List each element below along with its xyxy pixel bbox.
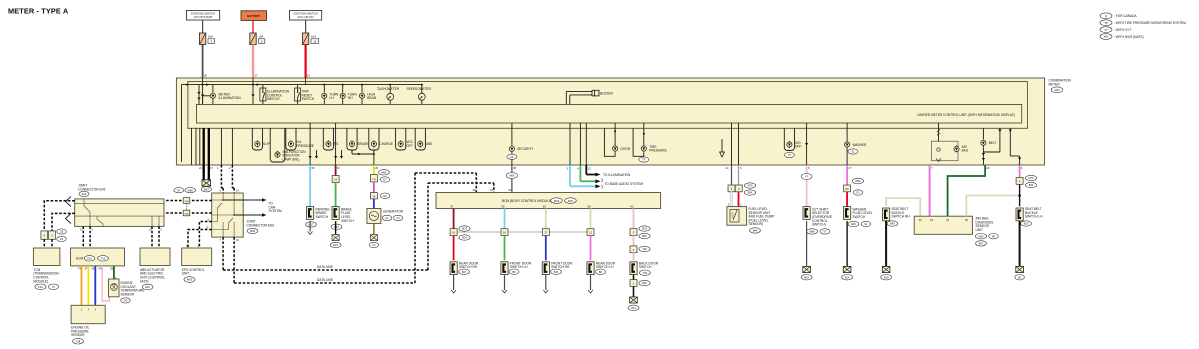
svg-text:SYSTEM: SYSTEM [269,209,282,213]
svg-text:SWITCH: SWITCH [316,215,329,219]
svg-text:SWITCH: SWITCH [639,265,652,269]
joint connector E03 label [78,184,105,197]
svg-text:CONNECTOR-E03: CONNECTOR-E03 [78,187,105,191]
inline connector 16 (brake fluid) [332,176,339,183]
door column 3: front door switch RH [542,209,573,294]
fuel level sensor wires from pins 24 6 [726,165,743,185]
svg-text:LAMP (MIL): LAMP (MIL) [283,157,300,161]
svg-text:M66: M66 [509,174,515,178]
svg-text:M57: M57 [804,275,810,279]
junction dots top bus [202,84,204,86]
oil pressure lamp loop [286,128,314,150]
svg-text:: WITH NVIS (NATS): : WITH NVIS (NATS) [1114,35,1144,39]
svg-text:M20: M20 [568,199,574,203]
seat belt RH ground [881,221,892,280]
door column 4: rear door switch LH [587,209,616,294]
wire battery pin27 down [252,78,254,105]
svg-text:8A: 8A [846,187,849,191]
seat belt LH ground [1015,221,1025,280]
svg-text:B16: B16 [554,270,559,274]
washer magenta wire [847,165,864,185]
wire sky blue to parking brake switch [309,165,311,207]
splice rail under BCM [454,231,593,233]
belt lamp [981,128,997,165]
svg-text:B62: B62 [642,234,647,238]
svg-text:SL: SL [851,150,855,154]
ground connector M67 [201,180,211,192]
svg-text:TACHOMETER: TACHOMETER [377,87,400,91]
speedometer gauge [407,85,432,105]
abs lamp loop [415,128,432,150]
washer red wire [846,192,848,207]
svg-text:SL: SL [864,222,868,226]
seat belt buckle switch RH [883,207,911,226]
M01 left pins dashed to inline connectors and E03 [164,201,212,214]
svg-text:B8: B8 [512,270,516,274]
air bag lamp circuit [931,123,968,162]
svg-text:VT: VT [1104,28,1108,32]
svg-text:TO BASE AUDIO SYSTEM: TO BASE AUDIO SYSTEM [605,182,644,186]
buzzer [566,90,613,104]
wire: fuse8 pink down to pin 27 [252,45,254,79]
svg-text:VT: VT [823,230,827,234]
internal left riser wire [181,85,183,162]
svg-text:BELT: BELT [989,141,997,145]
cvt ground [801,221,812,280]
M01 pins 5/14 to EPS [188,222,212,249]
wire yellow [87,266,89,305]
svg-text:UNIT: UNIT [182,272,189,276]
wires to fuel sensor [731,192,733,209]
unified meter control unit box [197,105,1022,124]
svg-text:F38: F38 [76,339,81,343]
svg-text:BATTERY: BATTERY [247,14,260,18]
svg-text:TP: TP [642,158,646,162]
svg-text:SWITCH RH: SWITCH RH [459,265,478,269]
svg-text:SWITCH RH: SWITCH RH [892,215,911,219]
svg-text:M75: M75 [1028,176,1034,180]
svg-text:E7: E7 [383,178,387,182]
svg-text:SENSOR: SENSOR [121,292,135,296]
svg-text:VT: VT [805,175,809,179]
fuse 10A 8 [250,33,265,45]
svg-text:OFF: OFF [795,145,801,149]
turn rh lamp [340,85,357,105]
svg-text:SWITCH: SWITCH [853,215,866,219]
svg-text:DATA LINE: DATA LINE [317,278,333,282]
wire orange ECM to oil pressure sensor [81,266,83,305]
thick black internal wires to ground [203,128,205,165]
wire: battery to fuse [252,20,254,33]
seat belt buckle switch RH wire [886,198,920,216]
svg-text:LH: LH [330,96,335,100]
o/d off lamp loop [784,128,801,158]
svg-text:B13: B13 [1024,222,1029,226]
svg-text:MODULE): MODULE) [33,279,48,283]
svg-text:B24: B24 [1029,183,1034,187]
svg-text:21A: 21A [185,200,189,203]
svg-text:VT: VT [52,285,56,289]
svg-text:M98: M98 [809,230,815,234]
MIL internal diode wiring [309,123,375,165]
svg-text:UNIT): UNIT) [140,279,149,283]
svg-text:SENSOR): SENSOR) [749,222,764,226]
svg-text:F13: F13 [101,257,106,261]
svg-text:B24: B24 [748,191,753,195]
diode on meter illumination wire [201,94,204,97]
harness chevrons at E03 left [66,197,72,224]
label COMBINATION METER M24 [1049,79,1072,93]
EPS control unit box [182,248,212,282]
CAN wire from pin2 to M01 [231,165,233,188]
inline connector 14 [370,193,389,199]
junction and beige branch to air bag pin 30 [966,184,1020,216]
svg-text:ACC OR ON: ACC OR ON [298,15,314,19]
svg-text:B44: B44 [753,229,758,233]
svg-text:B19: B19 [884,275,889,279]
internal wires for illumination/audio pins [570,123,586,165]
svg-text:SWITCH: SWITCH [302,97,315,101]
slip lamp loop [252,128,270,150]
seat belt LH violet wire pin 9 [1016,165,1037,188]
svg-text:BAG: BAG [962,149,969,153]
svg-text:M17: M17 [308,223,314,227]
svg-text:T62: T62 [642,247,647,251]
joint connector M01 box [212,193,244,237]
wire blue [94,266,96,305]
wire dark red from pin 33 [335,165,337,176]
data line from M01 pin16 down right [234,173,476,283]
right internal wires with diodes [983,128,1021,165]
wire yellow from pin 26 to generator chain [373,165,375,175]
svg-text:E9: E9 [383,194,387,198]
svg-text:B37: B37 [979,242,984,246]
fuse 10A 16 [302,33,318,45]
wire: ign1 to fuse [202,20,204,33]
wire: fuse16 red down to pin 15 [305,45,307,79]
svg-text:SENSOR: SENSOR [71,333,85,337]
svg-text:10A: 10A [258,35,263,39]
inline connector 17B [370,175,389,183]
fuel level sensor unit box [727,207,774,233]
svg-text:M66: M66 [381,171,387,175]
door column 1: rear door switch RH [450,209,479,294]
svg-text:10A: 10A [311,35,316,39]
svg-text:METER - TYPE A: METER - TYPE A [8,7,69,16]
svg-text:SWITCH LH: SWITCH LH [510,265,528,269]
cvt shift selector switch [803,207,832,234]
thick ground wires to M67 [199,165,213,180]
svg-text:OFF: OFF [406,144,412,148]
ABS actuator box [140,248,170,290]
internal top bus wire [182,84,422,86]
wire blue to generator [373,199,375,209]
svg-text:BUZZER: BUZZER [600,92,613,96]
brake lamp loop [347,128,368,150]
svg-text:M75: M75 [642,227,648,231]
supply box: IGNITION SWITCH ON OR START [186,10,219,20]
svg-text:UNIFIED METER CONTROL UNIT (WI: UNIFIED METER CONTROL UNIT (WITH INFORMA… [917,113,1015,117]
svg-text:TO ILLUMINATION: TO ILLUMINATION [603,173,631,177]
cvt pink wire [801,165,812,207]
dashed E03 bottom to ECM [83,226,90,248]
svg-text:N: N [1105,14,1107,18]
svg-text:AS: AS [510,155,514,159]
generator [367,209,404,224]
svg-text:M45: M45 [250,229,256,233]
svg-text:E7: E7 [177,188,181,192]
svg-text:ILLUMINATION: ILLUMINATION [219,96,242,100]
svg-text:M75: M75 [462,227,468,231]
svg-text:SWITCH): SWITCH) [812,223,826,227]
svg-text:PRESSURE: PRESSURE [296,144,314,148]
supply box: IGNITION SWITCH ACC OR ON [290,10,322,20]
combination meter inner frame [188,82,1028,129]
svg-text:C8: C8 [60,230,64,234]
vdc off lamp loop [396,128,414,150]
svg-text:ECM: ECM [76,257,83,261]
data line from M01 pin7 down right [223,183,494,270]
svg-text:M63: M63 [187,278,193,282]
inline connector box 25A [183,210,190,216]
CAN wire from pin1 to M01 [220,165,222,188]
internal wires to fuel sensor pins [722,123,739,165]
wire acc pin15 down [305,78,307,85]
parking brake ground [309,221,311,231]
svg-text:SWITCH: SWITCH [267,97,280,101]
legend symbol WN : WITH NVIS (NATS) [1100,34,1144,40]
ECM box [71,248,125,266]
legend symbol N : FOR CANADA [1100,13,1138,19]
svg-text:T09: T09 [643,271,648,275]
dashed E03 left to TCM via connectors [44,201,74,231]
engine coolant temperature sensor [109,279,145,303]
svg-text:BRAKE: BRAKE [358,142,369,146]
svg-text:SLIP: SLIP [263,142,270,146]
legend symbol TP : WITH TIRE PRESSURE MONITORING SYSTEM [1100,20,1186,26]
tire pressure lamp [633,123,667,162]
svg-text:DATA LINE: DATA LINE [317,265,333,269]
svg-text:: FOR CANADA: : FOR CANADA [1114,14,1138,18]
svg-text:ABS: ABS [426,142,432,146]
svg-text:M65: M65 [188,188,194,192]
inline connector boxes to TCM [41,229,66,242]
svg-text:M75: M75 [747,184,753,188]
generator ground [373,223,375,234]
wire: ign2 to fuse [305,20,307,33]
svg-text:M66: M66 [855,179,861,183]
svg-text:25A: 25A [185,213,189,216]
svg-text:F44: F44 [38,285,43,289]
TCM box [33,248,60,290]
TO ILLUMINATION arrow [596,173,632,177]
brake fluid ground [335,221,337,235]
parking brake switch [306,207,331,227]
engine oil pressure sensor [71,305,105,344]
svg-text:M18: M18 [554,199,560,203]
door lamp [604,123,630,156]
svg-text:E24: E24 [845,275,850,279]
svg-text:SWITCH LH: SWITCH LH [1025,215,1043,219]
svg-text:WASHER: WASHER [853,143,868,147]
svg-text:: WITH TIRE PRESSURE MONITORIN: : WITH TIRE PRESSURE MONITORING SYSTEM [1114,21,1186,25]
svg-text:17B: 17B [372,179,376,181]
washer fluid level switch [844,207,873,227]
seat belt buckle switch LH [1016,207,1043,226]
charge lamp loop [369,128,393,150]
washer ground [842,221,853,280]
ps lamp loop [323,128,338,150]
svg-text:SWITCH: SWITCH [341,219,354,223]
svg-text:BEAM: BEAM [367,96,376,100]
arrow on bus [206,83,210,85]
svg-text:ON OR START: ON OR START [194,15,213,19]
security lamp [507,123,534,165]
svg-text:RS: RS [992,234,996,238]
svg-text:E7: E7 [856,191,860,195]
high beam lamp [359,85,376,105]
joint connector E03 box [75,199,164,227]
door column 2: front door switch LH [501,209,532,294]
svg-text:RH: RH [348,96,353,100]
svg-text:WN: WN [1104,35,1108,39]
illumination control switch [260,85,290,105]
svg-text:SWITCH RH: SWITCH RH [551,265,570,269]
wire gray security to BCM pin 23 [511,165,513,193]
fuel inline connectors 5 3 [728,183,756,195]
svg-text:PRESSURE: PRESSURE [649,149,667,153]
svg-text:16: 16 [313,39,317,43]
wire green to brake fluid level switch [335,183,337,207]
svg-text:B14: B14 [631,306,636,310]
dashed E03 bottom to ABS [152,226,159,248]
svg-text:SPEEDOMETER: SPEEDOMETER [407,87,432,91]
svg-text:UNIT: UNIT [976,228,983,232]
inline connector box 21A [183,198,190,210]
combination meter outer box [176,78,1044,165]
wire ign1 branch down [202,78,204,105]
svg-text:B6: B6 [599,270,603,274]
svg-text:SWITCH LH: SWITCH LH [596,265,614,269]
TO BASE AUDIO SYSTEM arrows [596,179,644,189]
svg-text:B24: B24 [462,236,467,240]
svg-text:CHARGE: CHARGE [379,142,393,146]
washer inline connector 8A [844,185,863,195]
label JOINT CONNECTOR-M01 [247,220,275,234]
svg-text:B17: B17 [462,270,467,274]
svg-text:: WITH CVT: : WITH CVT [1114,28,1131,32]
back door switch column [628,209,659,311]
meter illumination lamp [203,85,242,105]
legend symbol VT : WITH CVT [1100,27,1131,33]
air bag magenta wire pin 7 [929,165,931,216]
brake fluid level switch [331,207,354,230]
air bag green wire pin 29 [948,165,986,216]
diode on cvt wire inside box [805,123,808,165]
svg-text:10A: 10A [208,35,213,39]
TO CAN SYSTEM arrows [224,198,282,216]
wire pink to coolant sensor [102,266,109,301]
svg-text:E14: E14 [82,192,87,196]
svg-text:M30: M30 [978,234,984,238]
svg-text:B45: B45 [890,222,895,226]
tachometer gauge [377,85,400,105]
washer lamp [845,123,868,165]
BCM body control module box [436,193,661,209]
svg-text:B62: B62 [642,281,647,285]
svg-text:M67: M67 [204,188,210,192]
svg-text:METER: METER [1049,82,1061,86]
air bag diagnosis sensor unit [914,216,998,246]
svg-text:B7: B7 [1018,275,1022,279]
connector ovals E7 M65 [174,188,196,193]
malfunction indicator lamp (MIL) loop [270,128,306,162]
CAN internal wires [220,128,222,165]
svg-text:E33: E33 [145,285,150,289]
svg-text:E24: E24 [333,243,338,247]
svg-text:TP: TP [1104,21,1108,25]
svg-text:E16: E16 [87,257,92,261]
supply box: BATTERY [241,11,267,21]
svg-text:CONNECTOR-M01: CONNECTOR-M01 [247,223,275,227]
svg-text:SECURITY: SECURITY [517,147,534,151]
svg-text:DOOR: DOOR [621,147,631,151]
turn lh lamp [322,85,339,105]
svg-text:M24: M24 [1054,88,1060,92]
wire: fuse3 down to combination meter pin 28 [202,45,204,79]
wire magenta [373,182,375,193]
wires to illumination / audio [569,165,571,186]
wire dark green to coolant sensor [113,266,115,279]
fuse 10A 3 [199,33,214,45]
left internal vertical wires group [192,128,200,165]
svg-text:BCM (BODY CONTROL MODULE): BCM (BODY CONTROL MODULE) [502,199,552,203]
svg-text:E30: E30 [851,222,856,226]
svg-text:GENERATOR: GENERATOR [383,210,404,214]
trip reset switch [295,85,315,105]
svg-text:VT: VT [788,153,792,157]
